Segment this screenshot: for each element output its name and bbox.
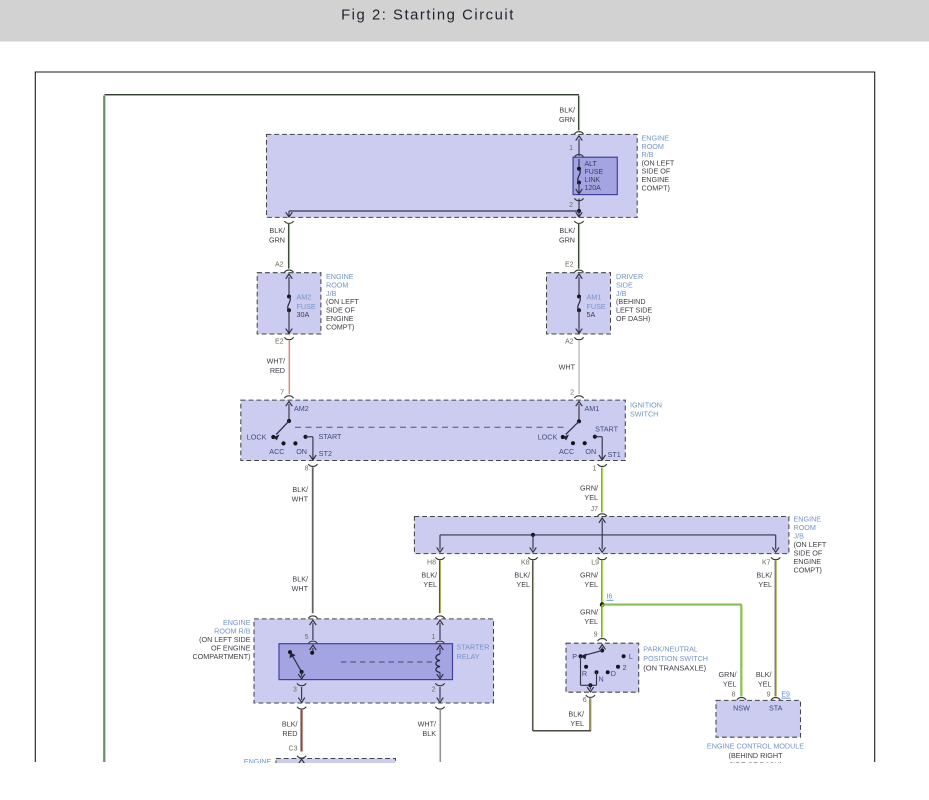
switch arm AM1 to LOCK xyxy=(563,421,579,440)
bottom crop mask xyxy=(0,763,929,800)
svg-text:GRN/: GRN/ xyxy=(580,484,598,493)
svg-text:A2: A2 xyxy=(275,262,284,269)
svg-text:AM2: AM2 xyxy=(294,404,309,413)
svg-text:J7: J7 xyxy=(591,506,599,513)
svg-text:LOCK: LOCK xyxy=(247,433,267,442)
label STARTER RELAY xyxy=(457,643,490,662)
label L xyxy=(629,652,633,661)
diagram border frame xyxy=(35,72,874,762)
svg-text:9: 9 xyxy=(594,632,598,639)
svg-text:2: 2 xyxy=(432,686,436,693)
relay inner box xyxy=(279,644,453,680)
svg-text:ALT: ALT xyxy=(585,161,598,168)
node PNP common xyxy=(600,649,604,653)
label N xyxy=(599,674,604,683)
svg-text:AM1: AM1 xyxy=(587,292,602,301)
label R xyxy=(582,669,587,678)
svg-text:3: 3 xyxy=(293,686,297,693)
relay contact pin5 side xyxy=(310,651,314,655)
connector pin K8 xyxy=(528,557,537,559)
svg-text:AM1: AM1 xyxy=(585,404,600,413)
svg-text:BLK/: BLK/ xyxy=(514,571,530,580)
label E9 xyxy=(781,691,790,698)
wire WHT/BLK relay pin 2 down xyxy=(439,710,440,762)
pin 9 label PNP xyxy=(594,632,598,639)
switch arm AM2 to LOCK xyxy=(274,421,290,440)
pin 2 label xyxy=(569,202,573,209)
label BLK/WHT upper xyxy=(292,485,309,504)
wire BLK/RED relay pin 3 down xyxy=(301,710,302,752)
svg-text:YEL: YEL xyxy=(584,493,598,502)
relay switch pivot xyxy=(300,670,304,674)
svg-text:BLK/: BLK/ xyxy=(292,485,308,494)
pin 6 label xyxy=(583,697,587,704)
connector pin L9 xyxy=(598,557,607,559)
switch AM1 input lead xyxy=(576,401,583,421)
svg-text:WHT: WHT xyxy=(559,363,576,372)
connector PNP pin 6 xyxy=(586,695,595,697)
wire BLK/YEL H8 to relay pin 1 xyxy=(439,561,440,614)
svg-text:ACC: ACC xyxy=(269,447,284,456)
label BLK/WHT lower xyxy=(292,575,309,594)
fuse ALT FUSE LINK 120A element xyxy=(576,159,583,194)
relay pin 1 entry xyxy=(437,620,444,640)
svg-text:WHT/: WHT/ xyxy=(418,720,436,729)
svg-text:COMPT): COMPT) xyxy=(642,183,670,192)
label BLK/GRN left xyxy=(269,226,285,245)
svg-text:1: 1 xyxy=(593,465,597,472)
svg-text:5A: 5A xyxy=(587,310,596,319)
PNP entry lead xyxy=(599,645,606,651)
connector pin 1 ENGINE ROOM R/B xyxy=(574,132,583,141)
svg-text:E2: E2 xyxy=(565,262,574,269)
connector relay pin 2 outer xyxy=(435,707,444,709)
svg-text:ST2: ST2 xyxy=(319,449,332,458)
label AM2 terminal xyxy=(294,404,309,413)
pin A2 label left xyxy=(275,262,284,269)
pin L9 label xyxy=(591,560,599,567)
svg-text:ACC: ACC xyxy=(559,447,574,456)
label GRN/YEL to PNP xyxy=(580,608,598,627)
svg-text:OF DASH): OF DASH) xyxy=(616,314,650,323)
connector relay pin 3 outer xyxy=(297,707,306,709)
label GRN/YEL L9 xyxy=(580,571,598,590)
wire GRN/YEL I6 to park/neutral switch xyxy=(602,605,603,638)
relay switch arm xyxy=(290,652,302,672)
pin E2 label below AM2 xyxy=(275,339,284,346)
svg-text:(BEHIND RIGHT: (BEHIND RIGHT xyxy=(729,751,784,760)
label START right xyxy=(595,425,619,434)
label BLK/YEL PNP xyxy=(568,710,584,729)
svg-text:RED: RED xyxy=(282,729,297,738)
svg-text:GRN: GRN xyxy=(269,236,285,245)
svg-text:LINK: LINK xyxy=(585,177,601,184)
wire GRN/YEL ST1 to J7 xyxy=(602,467,603,512)
svg-text:Fig 2: Starting Circuit: Fig 2: Starting Circuit xyxy=(341,7,515,23)
label PARK/NEUTRAL POSITION SWITCH xyxy=(643,644,708,672)
label ENGINE ROOM R/B (relay) xyxy=(192,618,250,661)
internal bus wire to left exit xyxy=(286,211,579,217)
contact ON left xyxy=(293,441,297,445)
connector relay pin 3 inner xyxy=(297,683,306,685)
contact N xyxy=(595,670,599,674)
wire ST1 contact to pin 1 xyxy=(595,437,606,460)
label WHT/RED xyxy=(267,357,285,376)
label ENGINE ROOM J/B (AM2) xyxy=(326,272,359,331)
svg-text:RELAY: RELAY xyxy=(457,652,480,661)
connector ignition pin 1 xyxy=(598,464,607,466)
relay pin 5 entry xyxy=(310,620,317,640)
pin K8 label xyxy=(521,560,530,567)
PNP output lead xyxy=(587,685,594,692)
label LOCK left xyxy=(247,433,267,442)
mechanical link dashed xyxy=(295,426,566,428)
label BLK/YEL K8 xyxy=(514,571,530,590)
svg-text:D: D xyxy=(611,669,616,678)
title banner xyxy=(0,0,929,42)
svg-text:ENGINE CONTROL MODULE: ENGINE CONTROL MODULE xyxy=(707,742,804,751)
relay pin 2 exit xyxy=(437,687,444,702)
node PNP output junction xyxy=(588,683,592,687)
svg-text:E2: E2 xyxy=(275,339,284,346)
label BLK/RED xyxy=(282,720,298,739)
contact LOCK right xyxy=(561,435,565,439)
svg-text:8: 8 xyxy=(732,691,736,698)
pin 2 label relay xyxy=(432,686,436,693)
svg-text:K8: K8 xyxy=(521,560,530,567)
connector relay pin 1 inner xyxy=(435,641,444,643)
relay switch pin5 lead xyxy=(310,645,317,653)
label ENGINE ROOM J/B (bus) xyxy=(794,515,827,575)
node AM2 switch pivot xyxy=(287,419,291,423)
pin 1 label xyxy=(569,145,573,152)
wire BLK/YEL PNP pin 6 loop to K8 xyxy=(533,698,591,731)
svg-text:COMPARTMENT): COMPARTMENT) xyxy=(192,652,250,661)
connector ALT fuse link top xyxy=(574,155,583,164)
svg-text:C3: C3 xyxy=(289,746,298,753)
svg-text:WHT/: WHT/ xyxy=(267,357,285,366)
node AM1 switch pivot xyxy=(577,419,581,423)
wire BLK/GRN to AM1 fuse xyxy=(578,224,579,269)
svg-text:N: N xyxy=(599,674,604,683)
svg-text:I6: I6 xyxy=(607,594,613,601)
label ALT FUSE LINK 120A xyxy=(585,161,604,192)
svg-text:GRN/: GRN/ xyxy=(580,608,598,617)
svg-text:RED: RED xyxy=(270,366,285,375)
svg-text:YEL: YEL xyxy=(758,680,772,689)
fuse AM2 30A element xyxy=(286,274,293,333)
connector ALT fuse link bottom xyxy=(574,198,583,200)
fuse ALT FUSE LINK 120A box xyxy=(573,157,617,194)
svg-text:BLK: BLK xyxy=(422,729,436,738)
connector AM2 J/B pin E2 xyxy=(284,337,293,339)
PNP P to output path xyxy=(581,656,597,685)
label GRN/YEL upper xyxy=(580,484,598,503)
junction block DRIVER SIDE J/B (AM1 fuse) xyxy=(547,273,611,334)
svg-text:COMPT): COMPT) xyxy=(326,322,354,331)
wire WHT AM1 to ignition xyxy=(578,340,579,394)
svg-text:YEL: YEL xyxy=(584,617,598,626)
svg-text:NSW: NSW xyxy=(733,704,750,713)
label BLK/GRN right xyxy=(559,226,575,245)
label ACC left xyxy=(269,447,284,456)
connector below R/B left exit xyxy=(284,221,293,223)
svg-text:120A: 120A xyxy=(585,185,602,192)
contact ACC left xyxy=(281,441,285,445)
label I6 xyxy=(607,594,614,601)
svg-text:GRN/: GRN/ xyxy=(580,571,598,580)
svg-text:STA: STA xyxy=(769,704,783,713)
connector AM2 J/B pin A2 xyxy=(284,270,293,272)
svg-text:START: START xyxy=(595,425,619,434)
svg-text:1: 1 xyxy=(569,145,573,152)
svg-text:ON: ON xyxy=(585,447,596,456)
contact LOCK left xyxy=(271,435,275,439)
svg-text:WHT: WHT xyxy=(292,584,309,593)
wire GRN/YEL I6 to ECM pin 8 xyxy=(602,604,742,696)
wire BLK/WHT ST2 to starter relay xyxy=(312,467,313,613)
module block ENGINE CONTROL MODULE xyxy=(716,700,801,737)
relay pin 3 exit xyxy=(298,687,305,702)
svg-text:SWITCH: SWITCH xyxy=(630,410,658,419)
label WHT xyxy=(559,363,576,372)
wire WHT/RED AM2 to ignition xyxy=(288,340,289,394)
svg-text:YEL: YEL xyxy=(723,680,737,689)
PNP switch arm to P xyxy=(581,651,603,660)
switch assembly IGNITION SWITCH box xyxy=(241,400,626,460)
contact START right xyxy=(593,435,597,439)
svg-text:2: 2 xyxy=(623,663,627,672)
connector pin K7 xyxy=(771,557,780,559)
svg-text:BLK/: BLK/ xyxy=(292,575,308,584)
connector ECM pin 9 xyxy=(771,698,780,700)
svg-text:STARTER: STARTER xyxy=(457,643,490,652)
svg-text:BLK/: BLK/ xyxy=(282,720,298,729)
svg-text:1: 1 xyxy=(432,634,436,641)
label ENGINE (clipped) xyxy=(244,757,272,766)
label 2 contact xyxy=(623,663,627,672)
svg-text:LOCK: LOCK xyxy=(538,433,558,442)
contact L xyxy=(622,654,626,658)
label BLK/GRN top xyxy=(559,106,575,125)
starter entry arrow (clipped) xyxy=(298,759,305,764)
label fuse AM1 5A xyxy=(587,292,606,319)
svg-text:YEL: YEL xyxy=(570,719,584,728)
junction block ENGINE ROOM J/B (AM2 fuse) xyxy=(257,273,321,334)
label STA xyxy=(769,704,783,713)
pin 9 label ECM xyxy=(767,691,771,698)
switch block PARK/NEUTRAL POSITION SWITCH xyxy=(566,643,639,692)
pin E2 label right xyxy=(565,262,574,269)
connector AM1 J/B pin E2 xyxy=(574,270,583,272)
switch AM2 input lead xyxy=(286,401,293,421)
connector relay pin 1 outer xyxy=(435,616,444,618)
contact ON right xyxy=(583,441,587,445)
connector PNP pin 9 xyxy=(598,639,607,641)
label ON right xyxy=(585,447,596,456)
svg-text:GRN/: GRN/ xyxy=(719,670,737,679)
label GRN/YEL at ECM xyxy=(719,670,737,689)
wire BLK/YEL K8 down xyxy=(532,561,533,732)
node junction at K8 xyxy=(531,533,535,537)
svg-text:2: 2 xyxy=(569,202,573,209)
connector ECM pin 8 xyxy=(737,698,746,700)
pin 3 label xyxy=(293,686,297,693)
pin 8 label xyxy=(305,465,309,472)
svg-text:GRN: GRN xyxy=(559,115,575,124)
label P xyxy=(572,652,577,661)
label ACC right xyxy=(559,447,574,456)
svg-text:R: R xyxy=(582,669,587,678)
svg-text:START: START xyxy=(319,432,343,441)
svg-text:ST1: ST1 xyxy=(608,450,621,459)
svg-text:ON: ON xyxy=(296,447,307,456)
pin 1 label below ignition xyxy=(593,465,597,472)
label BLK/YEL at ECM xyxy=(756,670,772,689)
connector pin H8 xyxy=(435,557,444,559)
svg-text:BLK/: BLK/ xyxy=(756,670,772,679)
svg-text:YEL: YEL xyxy=(584,580,598,589)
svg-text:7: 7 xyxy=(280,389,284,396)
label ENGINE ROOM R/B xyxy=(642,134,675,193)
svg-text:IGNITION: IGNITION xyxy=(630,401,662,410)
label ON left xyxy=(296,447,307,456)
svg-text:L9: L9 xyxy=(591,560,599,567)
junction block ENGINE ROOM J/B (bus) xyxy=(414,517,789,554)
wire BLK/GRN to AM2 fuse xyxy=(288,224,289,269)
relay contact NC xyxy=(288,650,292,654)
svg-text:YEL: YEL xyxy=(423,580,437,589)
label fuse AM2 30A xyxy=(297,292,316,319)
label BLK/YEL H8 xyxy=(421,571,437,590)
label WHT/BLK xyxy=(418,720,437,739)
svg-text:PARK/NEUTRAL: PARK/NEUTRAL xyxy=(643,644,698,653)
contact ACC right xyxy=(571,441,575,445)
svg-text:FUSE: FUSE xyxy=(585,169,604,176)
svg-text:GRN: GRN xyxy=(559,236,575,245)
svg-text:L: L xyxy=(629,652,633,661)
wire ST2 contact to pin 8 xyxy=(306,437,317,460)
pin H8 label xyxy=(427,560,436,567)
svg-text:YEL: YEL xyxy=(516,580,530,589)
PNP N to output path xyxy=(596,672,598,685)
label START left xyxy=(319,432,343,441)
connector ignition pin 7 xyxy=(284,396,293,398)
pin 5 label xyxy=(305,634,309,641)
svg-text:(ON TRANSAXLE): (ON TRANSAXLE) xyxy=(643,663,706,672)
svg-text:BLK/: BLK/ xyxy=(568,710,584,719)
svg-text:BLK/: BLK/ xyxy=(756,571,772,580)
pin 7 label xyxy=(280,389,284,396)
svg-text:9: 9 xyxy=(767,691,771,698)
internal bus wire xyxy=(440,534,776,536)
svg-text:5: 5 xyxy=(305,634,309,641)
svg-text:BLK/: BLK/ xyxy=(421,571,437,580)
svg-text:E9: E9 xyxy=(781,691,790,698)
wire GRN/YEL L9 to node I6 xyxy=(602,561,603,605)
svg-text:WHT: WHT xyxy=(292,495,309,504)
fuse AM1 5A element xyxy=(576,274,583,333)
connector below R/B right exit xyxy=(574,221,583,223)
pin 1 label relay xyxy=(432,634,436,641)
svg-text:A2: A2 xyxy=(565,339,574,346)
wire BLK/GRN battery loop left side xyxy=(104,94,579,762)
connector ignition pin 8 xyxy=(308,464,317,466)
svg-text:2: 2 xyxy=(570,389,574,396)
connector relay pin 2 inner xyxy=(435,683,444,685)
relay pivot to pin 3 xyxy=(298,672,305,679)
connector AM1 J/B pin A2 xyxy=(574,337,583,339)
wire pin 1 to ALT fuse link xyxy=(578,139,580,156)
contact D xyxy=(606,670,610,674)
svg-text:BLK/: BLK/ xyxy=(559,106,575,115)
svg-text:6: 6 xyxy=(583,697,587,704)
pin A2 label below AM1 xyxy=(565,339,574,346)
svg-text:H8: H8 xyxy=(427,560,436,567)
wire BLK/GRN into ENGINE ROOM R/B pin 1 xyxy=(578,96,579,131)
node internal junction below pin 2 xyxy=(577,209,581,213)
svg-text:BLK/: BLK/ xyxy=(559,226,575,235)
junction block ENGINE ROOM R/B xyxy=(267,134,638,217)
pin J7 label xyxy=(591,506,599,513)
svg-text:POSITION SWITCH: POSITION SWITCH xyxy=(643,654,708,663)
contact START left xyxy=(303,435,307,439)
label DRIVER SIDE J/B xyxy=(616,272,652,323)
pin 2 label ignition xyxy=(570,389,574,396)
label NSW xyxy=(733,704,750,713)
internal wire right exit xyxy=(576,211,583,217)
connector C3 label xyxy=(289,746,298,753)
label AM1 terminal xyxy=(585,404,600,413)
node I6 junction xyxy=(600,602,605,607)
contact P xyxy=(579,654,583,658)
bus drop to H8 xyxy=(437,535,444,552)
connector relay pin 5 outer xyxy=(308,616,317,618)
connector C3 xyxy=(297,756,306,758)
bus drop to K7 xyxy=(772,535,779,552)
contact R xyxy=(584,665,588,669)
relay block ENGINE ROOM R/B (starter relay) xyxy=(254,619,494,703)
svg-text:P: P xyxy=(572,652,577,661)
connector ignition pin 2 xyxy=(574,396,583,398)
svg-text:K7: K7 xyxy=(762,560,771,567)
svg-text:AM2: AM2 xyxy=(297,292,312,301)
svg-text:30A: 30A xyxy=(297,310,310,319)
starter block (clipped) xyxy=(276,759,396,776)
svg-text:BLK/: BLK/ xyxy=(269,226,285,235)
coil starter relay xyxy=(436,645,443,679)
contact 2 xyxy=(616,665,620,669)
svg-text:COMPT): COMPT) xyxy=(794,566,822,575)
wire J7 vertical through bus xyxy=(599,518,606,552)
pin K7 label xyxy=(762,560,771,567)
label D xyxy=(611,669,616,678)
svg-text:YEL: YEL xyxy=(758,580,772,589)
wire fuse to internal junction xyxy=(578,199,580,212)
connector relay pin 5 inner xyxy=(308,641,317,643)
wire BLK/YEL K7 to ECM xyxy=(775,561,776,697)
label ENGINE CONTROL MODULE xyxy=(707,742,804,770)
relay mechanical link dashed xyxy=(341,661,437,663)
svg-text:8: 8 xyxy=(305,465,309,472)
label ST1 xyxy=(608,450,621,459)
pin 8 label ECM xyxy=(732,691,736,698)
label IGNITION SWITCH xyxy=(630,401,662,419)
bus drop to K8 xyxy=(530,535,537,552)
label ST2 xyxy=(319,449,332,458)
label LOCK right xyxy=(538,433,558,442)
label BLK/YEL K7 xyxy=(756,571,772,590)
